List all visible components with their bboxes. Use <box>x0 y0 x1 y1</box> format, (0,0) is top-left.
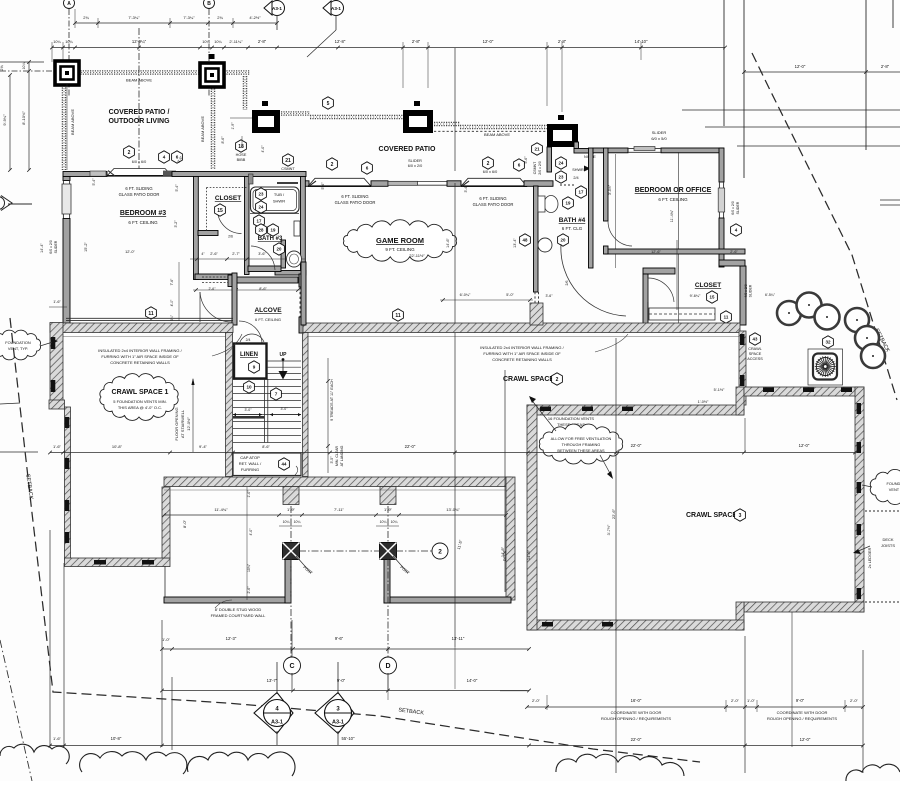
svg-text:5'-6": 5'-6" <box>524 156 528 164</box>
svg-text:1'-9": 1'-9" <box>287 507 296 512</box>
svg-text:3'-2": 3'-2" <box>174 220 178 228</box>
svg-text:FOUNDATION: FOUNDATION <box>5 340 31 345</box>
svg-text:10¾": 10¾" <box>247 563 251 572</box>
svg-text:BEAM ABOVE: BEAM ABOVE <box>70 109 75 135</box>
svg-text:16 FOUNDATION VENTS: 16 FOUNDATION VENTS <box>548 416 594 421</box>
svg-text:SLIDER: SLIDER <box>408 159 422 163</box>
svg-text:CRAWL SPACE: CRAWL SPACE <box>503 376 554 383</box>
svg-text:10¼: 10¼ <box>294 520 301 524</box>
svg-text:6'-5¼": 6'-5¼" <box>765 293 776 297</box>
svg-text:23: 23 <box>259 192 264 197</box>
svg-text:13'-4": 13'-4" <box>513 238 517 248</box>
svg-text:11: 11 <box>724 315 729 320</box>
svg-text:8'-6": 8'-6" <box>259 287 267 291</box>
svg-text:GLASS PATIO DOOR: GLASS PATIO DOOR <box>119 192 160 197</box>
svg-text:48: 48 <box>523 238 528 243</box>
svg-text:5'-0": 5'-0" <box>506 293 514 297</box>
svg-text:10'-8": 10'-8" <box>112 444 123 449</box>
svg-text:2'-8": 2'-8" <box>558 39 567 44</box>
svg-text:12'-0½": 12'-0½" <box>186 417 191 431</box>
svg-text:1'-6": 1'-6" <box>53 736 62 741</box>
svg-text:9'-9¼": 9'-9¼" <box>2 114 7 126</box>
svg-text:10¼: 10¼ <box>202 40 210 44</box>
svg-text:AT LANDING: AT LANDING <box>340 445 344 466</box>
svg-text:1'-0": 1'-0" <box>162 637 171 642</box>
svg-text:6/0 x 2/0: 6/0 x 2/0 <box>49 240 53 253</box>
svg-text:10¼: 10¼ <box>380 520 387 524</box>
svg-text:8'-0": 8'-0" <box>182 519 187 528</box>
svg-text:22'-0": 22'-0" <box>631 443 642 448</box>
svg-text:2: 2 <box>556 377 559 383</box>
svg-text:CRAWL SPACE 1: CRAWL SPACE 1 <box>112 389 169 396</box>
svg-text:12'-8": 12'-8" <box>335 39 346 44</box>
svg-text:15'-2": 15'-2" <box>84 242 88 252</box>
svg-text:2¾: 2¾ <box>0 65 4 71</box>
svg-text:BATH #4: BATH #4 <box>559 217 586 224</box>
svg-text:HOSE: HOSE <box>236 153 247 157</box>
svg-text:2: 2 <box>128 150 131 156</box>
svg-text:ALLOW FOR FREE VENTILATION: ALLOW FOR FREE VENTILATION <box>551 436 612 441</box>
svg-text:10¼: 10¼ <box>391 520 398 524</box>
svg-text:9'-0": 9'-0" <box>796 698 805 703</box>
svg-text:11'-4¾": 11'-4¾" <box>670 209 674 222</box>
svg-text:9 TREADS AT 11" EACH: 9 TREADS AT 11" EACH <box>330 379 334 421</box>
svg-text:22'-0": 22'-0" <box>405 444 416 449</box>
svg-text:6/0 x 6/0: 6/0 x 6/0 <box>483 170 498 174</box>
svg-text:14'-8": 14'-8" <box>526 549 531 560</box>
svg-text:2: 2 <box>487 161 490 167</box>
svg-text:12'-6": 12'-6" <box>651 250 661 254</box>
svg-text:28: 28 <box>259 228 264 233</box>
svg-text:15: 15 <box>710 295 715 300</box>
svg-text:10¼: 10¼ <box>283 520 290 524</box>
svg-text:9'-6¼": 9'-6¼" <box>690 294 701 298</box>
svg-text:21: 21 <box>285 158 291 164</box>
svg-text:1'-0": 1'-0" <box>747 698 756 703</box>
svg-text:THIS AREA @ 4'-0" O.C.: THIS AREA @ 4'-0" O.C. <box>118 405 162 410</box>
svg-text:14'-6": 14'-6" <box>446 238 450 248</box>
svg-text:6 FT. SLIDING: 6 FT. SLIDING <box>341 194 368 199</box>
svg-text:BATH #3: BATH #3 <box>258 236 283 242</box>
svg-text:A3-1: A3-1 <box>332 720 344 726</box>
svg-text:JOISTS: JOISTS <box>881 543 895 548</box>
svg-text:2'-8": 2'-8" <box>412 39 421 44</box>
svg-text:6 FT. CEILING: 6 FT. CEILING <box>128 220 158 225</box>
svg-text:43: 43 <box>753 337 758 342</box>
svg-text:21: 21 <box>534 147 540 152</box>
svg-text:BEDROOM #3: BEDROOM #3 <box>120 210 166 217</box>
svg-text:11: 11 <box>148 311 154 317</box>
svg-text:BEDROOM OR OFFICE: BEDROOM OR OFFICE <box>635 187 712 194</box>
svg-text:ROUGH OPENING / REQUIREMENTS: ROUGH OPENING / REQUIREMENTS <box>601 716 671 721</box>
svg-text:2'-6": 2'-6" <box>730 250 738 254</box>
svg-text:A: A <box>67 1 71 7</box>
svg-text:5'-4": 5'-4" <box>92 178 96 186</box>
svg-text:24: 24 <box>259 205 264 210</box>
svg-text:55'-10": 55'-10" <box>342 736 356 741</box>
svg-text:BEAM ABOVE: BEAM ABOVE <box>484 132 510 137</box>
svg-text:DECK: DECK <box>503 550 507 561</box>
svg-text:LINEN: LINEN <box>240 352 258 358</box>
svg-text:CONCRETE RETAINING WALLS: CONCRETE RETAINING WALLS <box>110 360 170 365</box>
svg-text:2/4: 2/4 <box>573 176 578 180</box>
svg-text:2x LEDGER: 2x LEDGER <box>868 547 872 568</box>
svg-text:7'-3¼": 7'-3¼" <box>128 15 140 20</box>
svg-text:CONCRETE RETAINING WALLS: CONCRETE RETAINING WALLS <box>492 357 552 362</box>
svg-text:FURRING: FURRING <box>241 467 259 472</box>
svg-text:2'-8": 2'-8" <box>881 64 890 69</box>
svg-text:SLIDER: SLIDER <box>652 130 667 135</box>
svg-text:ALCOVE: ALCOVE <box>254 307 282 314</box>
svg-text:COORDINATE WITH DOOR: COORDINATE WITH DOOR <box>777 710 828 715</box>
svg-text:9 FT. CEILING: 9 FT. CEILING <box>385 247 415 252</box>
svg-text:UP: UP <box>280 352 288 358</box>
svg-text:ROUGH OPENING / REQUIREMENTS: ROUGH OPENING / REQUIREMENTS <box>767 716 837 721</box>
svg-text:A3-1: A3-1 <box>271 720 283 726</box>
svg-text:32: 32 <box>825 340 831 345</box>
svg-text:OUTDOOR LIVING: OUTDOOR LIVING <box>108 118 170 125</box>
svg-text:VENT: VENT <box>889 487 900 492</box>
svg-text:10¼: 10¼ <box>22 63 26 70</box>
svg-text:CSMNT: CSMNT <box>533 161 537 174</box>
svg-text:1'-6": 1'-6" <box>53 300 61 304</box>
svg-text:6 FT. SLIDING: 6 FT. SLIDING <box>479 196 506 201</box>
svg-text:10¼: 10¼ <box>53 40 61 44</box>
svg-text:A3-1: A3-1 <box>331 6 341 11</box>
svg-text:3'-0": 3'-0" <box>245 408 253 412</box>
svg-text:CRAWL: CRAWL <box>748 347 762 351</box>
svg-text:4'-0": 4'-0" <box>249 528 253 536</box>
svg-text:3¾": 3¾" <box>170 314 174 321</box>
svg-text:10¼: 10¼ <box>214 40 222 44</box>
svg-text:19: 19 <box>271 228 276 233</box>
svg-text:SHWR: SHWR <box>572 168 584 172</box>
svg-text:SLIDER: SLIDER <box>736 201 740 214</box>
svg-text:D: D <box>385 663 390 670</box>
svg-text:44: 44 <box>282 462 287 467</box>
svg-text:10¼: 10¼ <box>65 40 73 44</box>
svg-text:THROUGH FRAMING: THROUGH FRAMING <box>562 442 601 447</box>
svg-text:1'-9": 1'-9" <box>231 122 235 130</box>
svg-text:9'-6": 9'-6" <box>335 636 344 641</box>
svg-text:1'-0½": 1'-0½" <box>698 400 709 404</box>
svg-text:2'-11¼": 2'-11¼" <box>229 39 243 44</box>
svg-text:6/0 x 2/0: 6/0 x 2/0 <box>408 164 423 168</box>
svg-text:C: C <box>289 663 294 670</box>
svg-text:MIN. CLEAR: MIN. CLEAR <box>335 446 339 467</box>
svg-text:2¾: 2¾ <box>83 15 89 20</box>
svg-text:6 FT. CEILING: 6 FT. CEILING <box>255 317 281 322</box>
svg-text:5'-4": 5'-4" <box>175 184 179 192</box>
svg-text:2: 2 <box>331 162 334 168</box>
svg-text:FURRING WITH 1" AIR SPACE INSI: FURRING WITH 1" AIR SPACE INSIDE OF <box>483 351 561 356</box>
svg-text:11'-4¾": 11'-4¾" <box>214 507 228 512</box>
svg-text:2'-6": 2'-6" <box>209 287 217 291</box>
svg-text:13'-11": 13'-11" <box>452 636 465 641</box>
svg-text:DECK: DECK <box>882 537 893 542</box>
svg-text:4'-0": 4'-0" <box>261 145 265 153</box>
svg-text:3: 3 <box>739 513 742 519</box>
svg-text:3'-0½": 3'-0½" <box>608 184 612 195</box>
svg-text:9: 9 <box>253 365 256 370</box>
svg-text:13'-7": 13'-7" <box>267 678 278 683</box>
svg-text:12'-0": 12'-0" <box>125 250 135 254</box>
svg-text:22'-0": 22'-0" <box>631 737 642 742</box>
svg-text:8' DOUBLE STUD WOOD: 8' DOUBLE STUD WOOD <box>215 607 262 612</box>
svg-text:11: 11 <box>395 313 401 319</box>
svg-text:5'-1½": 5'-1½" <box>714 388 725 392</box>
svg-text:TUB /: TUB / <box>274 192 285 197</box>
svg-text:20: 20 <box>277 247 282 252</box>
svg-text:7'-6": 7'-6" <box>170 278 174 286</box>
svg-text:FOUND.: FOUND. <box>887 481 900 486</box>
svg-text:2/6: 2/6 <box>565 281 569 286</box>
svg-text:10'-8": 10'-8" <box>111 736 122 741</box>
svg-text:CLOSET: CLOSET <box>215 195 241 202</box>
svg-text:6/0 x 6/0: 6/0 x 6/0 <box>132 160 147 164</box>
svg-text:14'-0": 14'-0" <box>467 678 478 683</box>
svg-text:1'-9": 1'-9" <box>384 507 393 512</box>
svg-text:8'-6": 8'-6" <box>262 445 270 449</box>
svg-text:8'-6": 8'-6" <box>221 136 225 144</box>
svg-text:2'-0": 2'-0" <box>731 698 740 703</box>
svg-text:10: 10 <box>246 385 252 390</box>
svg-text:2'-6": 2'-6" <box>210 252 218 256</box>
svg-text:2/0 x 2/0: 2/0 x 2/0 <box>538 161 542 174</box>
svg-text:17: 17 <box>579 190 584 195</box>
svg-text:SPACE: SPACE <box>749 352 762 356</box>
svg-text:4: 4 <box>735 228 738 233</box>
svg-text:13'-0¾": 13'-0¾" <box>446 507 460 512</box>
svg-text:14'-4": 14'-4" <box>40 243 44 253</box>
svg-text:CLOSET: CLOSET <box>695 282 721 289</box>
svg-text:COVERED PATIO: COVERED PATIO <box>379 146 436 153</box>
svg-text:2'-0": 2'-0" <box>850 698 859 703</box>
svg-text:2'-8": 2'-8" <box>258 39 267 44</box>
svg-text:FLOOR OPENING: FLOOR OPENING <box>174 407 179 440</box>
svg-text:7'-3¼": 7'-3¼" <box>183 15 195 20</box>
svg-text:12'-0": 12'-0" <box>483 39 494 44</box>
svg-text:22'-11½": 22'-11½" <box>409 253 425 258</box>
svg-text:2: 2 <box>438 548 442 555</box>
svg-text:7'-11": 7'-11" <box>334 507 344 512</box>
svg-text:3'-4": 3'-4" <box>464 185 468 193</box>
svg-text:FRAMED COURTYARD WALL: FRAMED COURTYARD WALL <box>211 613 267 618</box>
svg-text:5'-4": 5'-4" <box>321 182 325 190</box>
svg-text:BIBB: BIBB <box>237 158 246 162</box>
svg-text:6: 6 <box>518 163 521 168</box>
svg-text:6 FT. CEILING: 6 FT. CEILING <box>658 197 688 202</box>
svg-text:CRAWL SPACE: CRAWL SPACE <box>686 512 737 519</box>
svg-text:6/0 x 2/0: 6/0 x 2/0 <box>731 201 735 214</box>
svg-text:6 FT. CLG: 6 FT. CLG <box>562 226 583 231</box>
svg-text:SHWR: SHWR <box>273 199 285 204</box>
svg-text:6: 6 <box>366 166 369 171</box>
svg-text:15: 15 <box>217 208 223 214</box>
svg-text:2'-6": 2'-6" <box>247 586 251 594</box>
svg-text:SLIDER: SLIDER <box>54 240 58 253</box>
svg-text:GLASS PATIO DOOR: GLASS PATIO DOOR <box>335 200 376 205</box>
svg-text:GLASS PATIO DOOR: GLASS PATIO DOOR <box>473 202 514 207</box>
svg-text:BEAM ABOVE: BEAM ABOVE <box>126 78 152 83</box>
svg-text:23: 23 <box>559 175 564 180</box>
svg-text:16'-0": 16'-0" <box>631 698 642 703</box>
svg-text:18: 18 <box>238 144 244 150</box>
svg-text:FURRING WITH 1" AIR SPACE INSI: FURRING WITH 1" AIR SPACE INSIDE OF <box>101 354 179 359</box>
svg-text:6/0 x 5/0: 6/0 x 5/0 <box>651 136 667 141</box>
svg-text:8'-10¾": 8'-10¾" <box>21 111 26 125</box>
svg-text:4'-2½": 4'-2½" <box>249 15 261 20</box>
svg-text:3'-5": 3'-5" <box>330 456 334 464</box>
svg-text:1'-6": 1'-6" <box>53 444 62 449</box>
svg-text:19: 19 <box>566 201 571 206</box>
svg-text:VENT, TYP.: VENT, TYP. <box>8 346 28 351</box>
svg-text:20: 20 <box>561 238 566 243</box>
svg-text:CAP ATOP: CAP ATOP <box>240 455 260 460</box>
svg-text:12'-0": 12'-0" <box>795 64 806 69</box>
svg-text:2'-7": 2'-7" <box>232 252 240 256</box>
svg-text:2/4: 2/4 <box>246 338 251 342</box>
svg-text:2'-0": 2'-0" <box>532 698 541 703</box>
svg-text:12'-0": 12'-0" <box>800 737 811 742</box>
svg-text:A3-1: A3-1 <box>272 6 282 11</box>
svg-text:3'-0": 3'-0" <box>281 407 289 411</box>
svg-text:CSMNT: CSMNT <box>281 167 295 171</box>
svg-text:3'-6": 3'-6" <box>546 294 554 298</box>
svg-text:4: 4 <box>163 155 166 160</box>
svg-text:14'-10": 14'-10" <box>635 39 649 44</box>
svg-text:SLIDER: SLIDER <box>749 284 753 297</box>
svg-text:3'-7½": 3'-7½" <box>607 524 611 535</box>
svg-text:COORDINATE WITH DOOR: COORDINATE WITH DOOR <box>611 710 662 715</box>
svg-text:6'-0¼": 6'-0¼" <box>460 293 471 297</box>
svg-text:12'-0": 12'-0" <box>799 443 810 448</box>
svg-text:AT STAIRWELL: AT STAIRWELL <box>180 409 185 438</box>
svg-text:5 FOUNDATION VENTS MIN.: 5 FOUNDATION VENTS MIN. <box>113 399 166 404</box>
svg-text:BEAM ABOVE: BEAM ABOVE <box>200 116 205 142</box>
svg-text:12'-3": 12'-3" <box>226 636 237 641</box>
svg-text:COVERED PATIO /: COVERED PATIO / <box>109 109 170 116</box>
svg-text:1'-0": 1'-0" <box>247 490 251 498</box>
svg-text:2/6: 2/6 <box>228 235 233 239</box>
svg-text:5: 5 <box>327 101 330 107</box>
svg-text:GAME ROOM: GAME ROOM <box>376 236 424 245</box>
svg-text:6 FT. SLIDING: 6 FT. SLIDING <box>125 186 152 191</box>
svg-text:INSULATED 2x4 INTERIOR WALL FR: INSULATED 2x4 INTERIOR WALL FRAMING / <box>98 348 182 353</box>
svg-text:3'-6": 3'-6" <box>258 252 266 256</box>
svg-text:7: 7 <box>275 392 278 397</box>
svg-text:ACCESS: ACCESS <box>747 357 763 361</box>
svg-text:B: B <box>207 1 211 7</box>
svg-text:22'-6": 22'-6" <box>611 508 616 519</box>
svg-text:17: 17 <box>257 219 262 224</box>
svg-text:2¾: 2¾ <box>217 15 223 20</box>
svg-text:INSULATED 2x4 INTERIOR WALL FR: INSULATED 2x4 INTERIOR WALL FRAMING / <box>480 345 564 350</box>
svg-text:4'-0": 4'-0" <box>170 299 174 307</box>
svg-text:RET. WALL /: RET. WALL / <box>239 461 262 466</box>
svg-text:24: 24 <box>559 161 564 166</box>
svg-text:9'-4": 9'-4" <box>199 444 208 449</box>
svg-text:4/0 x 2/0: 4/0 x 2/0 <box>744 284 748 297</box>
